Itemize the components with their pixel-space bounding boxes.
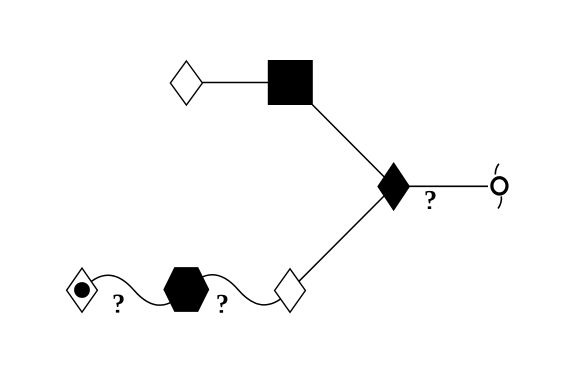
node D1 open diamond: [170, 61, 202, 105]
wire: [290, 186, 394, 290]
reducing end bottom arc: [498, 196, 501, 208]
node D2 filled diamond: [378, 163, 409, 210]
wire wavy H-D3: [186, 275, 290, 305]
node S filled square: [268, 60, 313, 105]
wire: [186, 82, 290, 84]
node D4 open diamond: [67, 268, 98, 312]
node D3 open diamond: [275, 269, 306, 313]
wire wavy D4-H: [82, 275, 186, 305]
wire: [394, 185, 488, 187]
node O reducing end ring: [492, 178, 507, 194]
node H filled hexagon: [164, 268, 208, 311]
label ? 2: [217, 295, 227, 313]
node D4 inner dot: [74, 282, 90, 298]
wire: [290, 83, 393, 187]
label ? 3: [425, 191, 435, 209]
label ? 1: [114, 295, 124, 313]
reducing end top arc: [495, 164, 499, 175]
